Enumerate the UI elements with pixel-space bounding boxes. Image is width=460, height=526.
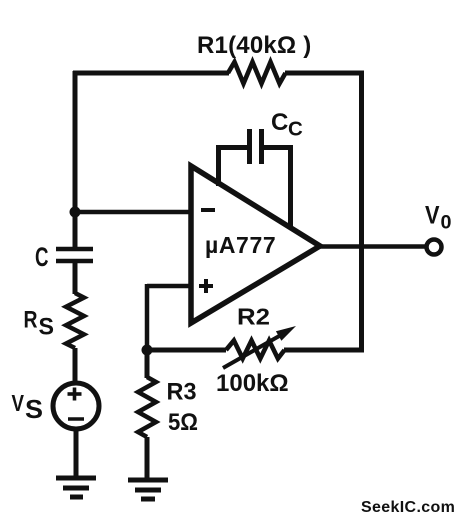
capacitor C label	[35, 242, 49, 272]
wire R3 to ground	[145, 437, 150, 480]
wire CC left horizontal	[216, 145, 248, 150]
capacitor C plates	[56, 249, 93, 261]
node R2 R3 junction	[142, 345, 153, 356]
node VO label	[425, 202, 452, 234]
wire junction to capacitor C	[73, 212, 78, 249]
ground below VS	[56, 478, 96, 497]
resistor R1 zigzag	[228, 62, 286, 84]
ground below R3	[128, 480, 168, 499]
svg-text:SeekIC.com: SeekIC.com	[361, 499, 455, 516]
resistor R3 zigzag	[138, 377, 156, 437]
wire CC right horizontal	[263, 145, 293, 150]
resistor R3 value 5Ω	[168, 409, 198, 436]
svg-text:R: R	[24, 307, 38, 334]
source VS label	[12, 390, 44, 424]
node inverting input junction	[70, 207, 81, 218]
watermark SeekIC.com	[361, 499, 455, 516]
op-amp non-inverting input plus sign	[199, 279, 213, 293]
svg-text:0: 0	[441, 212, 452, 234]
wire CC right vertical to op-amp top edge	[288, 145, 293, 229]
svg-text:V: V	[425, 202, 440, 230]
svg-text:S: S	[25, 394, 43, 424]
svg-text:S: S	[39, 314, 55, 341]
wire left vertical from top to inverting node	[73, 71, 78, 214]
wire non-inverting vertical down to R2 node	[145, 284, 150, 352]
wire output horizontal	[315, 244, 427, 249]
resistor RS label	[24, 307, 55, 341]
wire inverting input horizontal	[75, 210, 192, 215]
resistor RS zigzag	[66, 293, 84, 348]
resistor R3 label	[167, 379, 197, 406]
svg-text:5Ω: 5Ω	[168, 409, 198, 436]
capacitor CC plates	[250, 129, 262, 164]
op-amp U1 triangle	[191, 166, 320, 323]
wire VS to ground	[74, 429, 79, 478]
svg-text:R1(40kΩ ): R1(40kΩ )	[197, 32, 311, 59]
svg-text:100kΩ: 100kΩ	[216, 370, 289, 397]
svg-text:C: C	[288, 118, 303, 141]
wire capacitor C to resistor RS	[73, 261, 78, 294]
op-amp U1 label µA777	[205, 232, 276, 258]
capacitor CC label	[271, 109, 303, 141]
terminal VO circle	[427, 240, 442, 255]
potentiometer R2 arrow	[223, 326, 296, 368]
wire top-left horizontal segment	[73, 71, 229, 76]
source VS circle	[53, 383, 99, 429]
svg-text:C: C	[35, 242, 49, 272]
svg-text:µA777: µA777	[205, 232, 276, 258]
potentiometer R2 zigzag	[226, 341, 285, 359]
op-amp inverting input minus sign	[201, 208, 215, 212]
wire top-right horizontal segment	[285, 71, 364, 76]
wire R2 right horizontal	[284, 348, 364, 353]
svg-text:R3: R3	[167, 379, 197, 406]
potentiometer R2 label	[237, 304, 270, 330]
wire CC left vertical to op-amp top edge	[216, 145, 221, 186]
potentiometer R2 value 100kΩ	[216, 370, 289, 397]
wire R3 node to resistor R3	[145, 350, 150, 378]
wire non-inverting input horizontal	[147, 284, 192, 289]
wire RS to source VS	[73, 348, 78, 385]
resistor R1 value label R1(40kΩ)	[197, 32, 311, 59]
wire right vertical feedback	[359, 71, 364, 352]
wire R2 left horizontal	[147, 348, 226, 353]
svg-text:R2: R2	[237, 304, 270, 330]
svg-text:C: C	[271, 109, 288, 136]
svg-text:V: V	[12, 390, 25, 416]
